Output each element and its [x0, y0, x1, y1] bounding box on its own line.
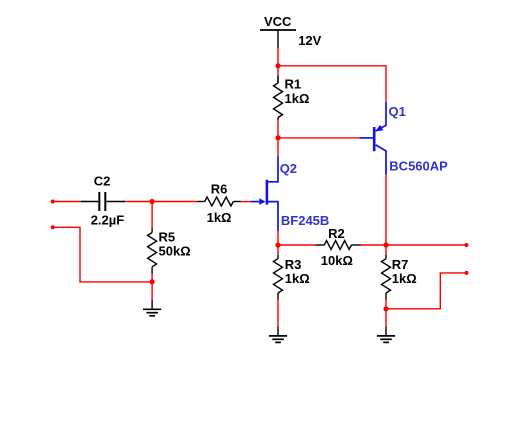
- svg-text:C2: C2: [94, 174, 111, 189]
- svg-text:1kΩ: 1kΩ: [285, 91, 310, 106]
- resistor R3: [274, 245, 283, 300]
- power VCC symbol: [260, 30, 296, 48]
- svg-text:Q2: Q2: [280, 161, 297, 176]
- node D junction: [150, 279, 155, 284]
- wire terminal 1 to C2: [53, 201, 81, 203]
- node C junction: [150, 199, 155, 204]
- resistor R5: [148, 202, 157, 274]
- wire VCC to node A: [277, 48, 279, 65]
- svg-text:R7: R7: [392, 257, 409, 272]
- resistor R1: [274, 66, 283, 121]
- output terminal 1: [465, 243, 469, 247]
- wire node G to output terminal 2: [386, 273, 467, 309]
- resistor R2: [316, 241, 361, 250]
- node F junction: [383, 242, 388, 247]
- node E junction: [275, 242, 280, 247]
- svg-text:50kΩ: 50kΩ: [159, 244, 191, 259]
- svg-text:BF245B: BF245B: [281, 213, 329, 228]
- svg-text:1kΩ: 1kΩ: [392, 271, 417, 286]
- wire terminal 2 to node D: [53, 227, 152, 282]
- node B junction: [275, 135, 280, 140]
- svg-text:1kΩ: 1kΩ: [207, 210, 232, 225]
- wire R7 to node G: [385, 300, 387, 309]
- capacitor C2: [81, 192, 125, 211]
- wire R6 to Q2 gate: [241, 201, 251, 203]
- svg-text:R5: R5: [159, 230, 176, 245]
- transistor Q2 (JFET): [251, 156, 278, 231]
- wire Q1 collector to node F: [385, 175, 387, 245]
- wire node G to ground 3: [385, 309, 387, 327]
- svg-text:1kΩ: 1kΩ: [285, 271, 310, 286]
- node A junction: [275, 63, 280, 68]
- svg-text:10kΩ: 10kΩ: [321, 253, 353, 268]
- wire node F to output terminal 1: [386, 244, 467, 246]
- wire node B to Q2 drain: [277, 138, 279, 157]
- wire node C to R6: [152, 201, 197, 203]
- wire R1 to node B: [277, 120, 279, 137]
- svg-text:12V: 12V: [298, 33, 321, 48]
- svg-text:2.2µF: 2.2µF: [91, 212, 125, 227]
- node G junction: [383, 306, 388, 311]
- input terminal 2: [51, 225, 55, 229]
- wire node D to ground 1: [151, 282, 153, 300]
- svg-text:VCC: VCC: [264, 14, 292, 29]
- svg-text:Q1: Q1: [389, 104, 406, 119]
- svg-text:R2: R2: [328, 226, 345, 241]
- resistor R6: [197, 197, 241, 206]
- svg-text:R6: R6: [211, 182, 228, 197]
- output terminal 2: [465, 271, 469, 275]
- svg-text:R3: R3: [285, 257, 302, 272]
- wire node E to R2: [278, 244, 316, 246]
- wire R3 to ground 2: [277, 300, 279, 327]
- input terminal 1: [51, 200, 55, 204]
- wire node A to Q1 emitter (top rail): [278, 66, 386, 102]
- svg-text:BC560AP: BC560AP: [389, 158, 448, 173]
- resistor R7: [382, 245, 391, 300]
- ground 2 (R3): [269, 327, 287, 343]
- wire C2 to node C: [125, 201, 152, 203]
- wire R5 to node D: [151, 274, 153, 282]
- wire Q2 source to node E: [277, 231, 279, 245]
- ground 3 (R7): [377, 327, 395, 343]
- wire node B to Q1 base: [278, 137, 359, 139]
- wire R2 to node F: [361, 244, 386, 246]
- svg-text:R1: R1: [285, 77, 302, 92]
- ground 1 (R5): [143, 300, 161, 316]
- transistor Q1: [359, 102, 386, 175]
